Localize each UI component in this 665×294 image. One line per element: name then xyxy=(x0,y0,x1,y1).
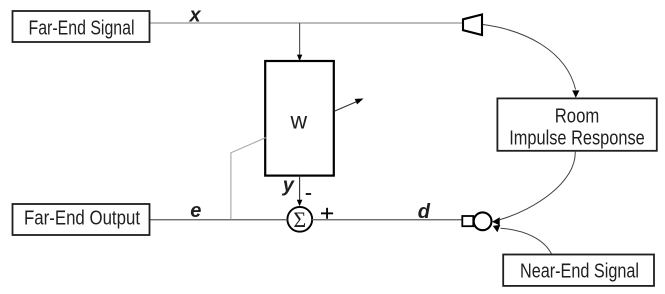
svg-text:d: d xyxy=(418,201,431,223)
svg-text:Near-End Signal: Near-End Signal xyxy=(520,260,639,282)
wire: error feedback to W xyxy=(231,138,266,220)
wire: x line down to filter W xyxy=(299,23,301,55)
wire x: Far-End Signal to loudspeaker xyxy=(149,22,463,24)
wire: Near-End Signal to microphone xyxy=(501,228,552,254)
svg-text:w: w xyxy=(289,107,307,133)
svg-text:Far-End Output: Far-End Output xyxy=(24,207,140,229)
svg-text:Σ: Σ xyxy=(293,207,306,232)
microphone xyxy=(462,216,473,226)
loudspeaker xyxy=(463,15,482,36)
summer sigma xyxy=(287,207,312,232)
wire e: Far-End Output to summer xyxy=(149,219,288,221)
adaptive filter W xyxy=(265,61,334,176)
wire d: summer to microphone xyxy=(312,219,462,221)
wire: Room Impulse Response to microphone xyxy=(500,151,575,220)
block Room Impulse Response xyxy=(497,98,656,150)
svg-text:e: e xyxy=(190,200,201,222)
block Far-End Output xyxy=(13,204,150,235)
svg-text:Impulse Response: Impulse Response xyxy=(509,128,645,150)
minus sign at summer xyxy=(306,193,311,195)
svg-text:Room: Room xyxy=(555,106,600,128)
svg-text:Far-End Signal: Far-End Signal xyxy=(29,17,135,39)
block Near-End Signal xyxy=(503,255,654,286)
plus sign at summer xyxy=(321,212,333,214)
svg-text:y: y xyxy=(282,175,295,197)
block Far-End Signal xyxy=(13,11,150,42)
adaptation arrow on W xyxy=(334,101,357,111)
wire y: W output down to summer xyxy=(299,176,301,200)
svg-text:x: x xyxy=(188,5,201,27)
wire: loudspeaker to Room Impulse Response xyxy=(483,25,576,90)
